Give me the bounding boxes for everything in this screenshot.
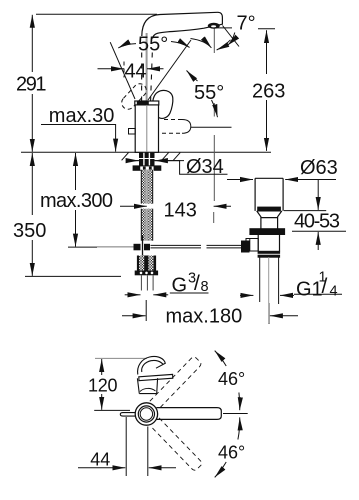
7deg angle leg <box>223 26 240 47</box>
wire aerator extension line <box>213 29 215 54</box>
pop-up rod left thin <box>97 246 134 248</box>
55deg right leg <box>148 40 191 100</box>
svg-text:55°: 55° <box>194 82 224 104</box>
dimension 263 <box>258 28 275 30</box>
svg-text:/: / <box>322 275 328 298</box>
svg-text:Ø34: Ø34 <box>186 156 224 178</box>
55deg no1 leader right <box>171 42 190 48</box>
mounting nut <box>139 153 155 166</box>
wire 350 bottom line <box>25 275 121 277</box>
dashed lever flat pill <box>162 120 232 134</box>
rod coupler dark <box>241 241 250 253</box>
body side knob <box>129 129 136 135</box>
dim G1 1/4 arrows <box>240 294 253 296</box>
washer flange <box>133 166 161 170</box>
svg-text:max.30: max.30 <box>49 105 115 127</box>
svg-text:40-53: 40-53 <box>294 211 340 233</box>
threaded shank lower <box>141 209 154 241</box>
7deg arc <box>228 33 235 46</box>
pop-up rod <box>151 245 245 248</box>
120 dim <box>94 359 130 410</box>
svg-text:291: 291 <box>16 74 47 96</box>
max300 ref line <box>68 246 97 248</box>
dimension 143 <box>120 205 147 207</box>
svg-text:max.300: max.300 <box>40 190 113 212</box>
46deg arcs <box>215 351 240 478</box>
drain flange dark <box>250 229 285 235</box>
tail centerline <box>268 257 270 323</box>
stem gray center <box>146 33 148 101</box>
55deg no2 lower arrow <box>212 100 218 117</box>
svg-text:120: 120 <box>88 376 118 396</box>
svg-text:55°: 55° <box>138 34 168 56</box>
plan body circle <box>135 403 157 425</box>
dimension 291 <box>31 15 33 72</box>
drain body below <box>257 234 259 251</box>
arc to vertical line <box>191 39 212 48</box>
svg-text:G: G <box>172 275 188 297</box>
pull rod cross fitting <box>134 235 151 258</box>
plan lever grip <box>137 356 172 393</box>
svg-text:44: 44 <box>90 450 110 470</box>
drain plug cylinder <box>246 178 285 304</box>
deck hatch <box>122 153 129 161</box>
threaded shank upper <box>141 170 154 204</box>
svg-text:max.180: max.180 <box>166 306 243 328</box>
plan lever plate <box>139 374 173 380</box>
dim 44 bottom <box>78 417 176 476</box>
handle knob solid <box>153 90 173 118</box>
hose tails <box>141 275 153 290</box>
plan lever neck <box>137 378 157 393</box>
connector flange <box>135 271 158 276</box>
handle stem dashed <box>142 53 153 101</box>
aerator <box>208 23 220 29</box>
plan lever stub <box>120 413 135 417</box>
faucet body <box>129 101 159 152</box>
wire top extension line <box>36 13 157 15</box>
dimension 350 <box>31 153 33 215</box>
svg-text:143: 143 <box>164 200 197 222</box>
svg-text:46°: 46° <box>218 443 245 463</box>
svg-text:4: 4 <box>330 284 338 300</box>
swivel dashed bar upper <box>150 356 203 472</box>
dimension 44 top <box>98 62 164 78</box>
svg-text:263: 263 <box>252 81 285 103</box>
svg-text:8: 8 <box>201 279 209 295</box>
dim Ø34 arrows <box>126 161 228 175</box>
hose connector nut <box>137 256 156 271</box>
55deg no2 upper arrow <box>187 71 198 82</box>
dimension max180 left <box>122 315 146 317</box>
dimension max180 right <box>270 315 298 317</box>
7deg underline <box>214 27 233 29</box>
dim 40-53 <box>284 210 326 212</box>
svg-text:7°: 7° <box>237 13 256 35</box>
dimension max300 <box>75 153 77 190</box>
plan spout bar <box>157 408 222 420</box>
dashed lever left pill <box>119 81 149 112</box>
dim G3/8 <box>125 293 209 295</box>
drain neck <box>257 211 282 229</box>
swivel dashed bar lower <box>151 418 203 472</box>
side port <box>246 239 258 252</box>
plan spout centerline <box>223 413 248 415</box>
svg-text:350: 350 <box>13 220 46 242</box>
body centerline <box>146 105 148 152</box>
flat ref line <box>191 126 232 128</box>
55deg no1 leader left <box>118 44 136 48</box>
deck line <box>21 151 271 153</box>
svg-text:/: / <box>194 272 200 295</box>
spout outline <box>142 12 223 38</box>
svg-text:Ø63: Ø63 <box>300 157 338 179</box>
120 ext top <box>95 357 147 359</box>
dim Ø63 <box>227 180 346 296</box>
deck bottom line <box>126 160 184 162</box>
55deg left leg <box>110 42 135 99</box>
max.30 leader <box>41 125 116 152</box>
locknut bands <box>258 251 279 253</box>
svg-text:46°: 46° <box>218 369 245 389</box>
tailpipe <box>259 257 261 302</box>
svg-text:44: 44 <box>125 61 147 83</box>
